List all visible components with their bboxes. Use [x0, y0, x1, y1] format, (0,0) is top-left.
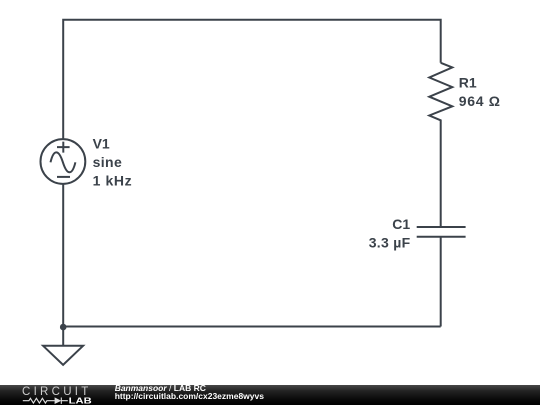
- svg-text:R1: R1: [459, 75, 477, 91]
- svg-text:3.3 µF: 3.3 µF: [369, 234, 411, 250]
- svg-text:V1: V1: [93, 136, 110, 152]
- svg-text:1 kHz: 1 kHz: [93, 172, 132, 188]
- svg-text:964 Ω: 964 Ω: [459, 93, 500, 109]
- svg-text:sine: sine: [93, 154, 122, 170]
- svg-text:LAB: LAB: [69, 396, 92, 405]
- svg-text:C1: C1: [392, 216, 410, 232]
